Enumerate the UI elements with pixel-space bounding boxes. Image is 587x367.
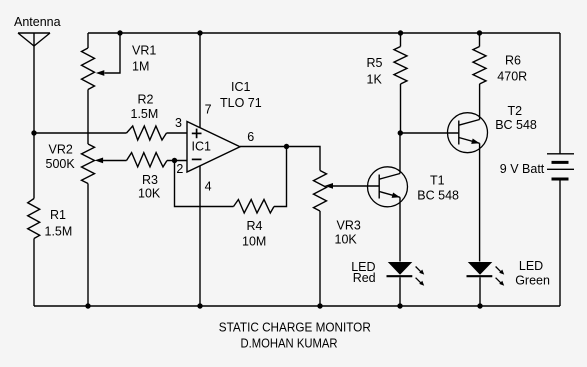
svg-text:1M: 1M: [132, 60, 149, 74]
node op-amp supply / top rail junction: [197, 30, 202, 35]
svg-text:Green: Green: [515, 274, 550, 288]
wire R5 top: [400, 33, 402, 47]
node LED green / bottom rail junction: [477, 303, 482, 308]
node op-amp V- / bottom rail junction: [197, 303, 202, 308]
wire inverting input (pin 2): [167, 160, 187, 162]
resistor R4: [234, 200, 275, 214]
svg-text:T2: T2: [508, 104, 523, 118]
svg-text:1.5M: 1.5M: [131, 107, 159, 121]
LED D2 green: [467, 262, 505, 306]
svg-text:1K: 1K: [367, 73, 383, 87]
wire VR2 to bottom rail: [87, 184, 89, 307]
svg-text:500K: 500K: [46, 157, 76, 171]
battery B1 9V: [547, 33, 574, 306]
resistor R3: [127, 153, 168, 167]
svg-text:Red: Red: [353, 271, 376, 285]
node T1 collector / R5 / T2 base junction: [398, 130, 403, 135]
wire op-amp V- (pin 4) to bottom rail: [199, 166, 201, 306]
LED D1 red: [387, 262, 425, 306]
resistor R5: [394, 47, 407, 85]
svg-text:10K: 10K: [138, 187, 161, 201]
svg-text:10M: 10M: [242, 234, 266, 248]
node R6 / top rail junction: [477, 30, 482, 35]
wire R6 top: [479, 33, 481, 47]
svg-text:T1: T1: [430, 173, 445, 187]
svg-text:9 V Batt: 9 V Batt: [500, 162, 545, 176]
svg-text:BC 548: BC 548: [495, 118, 537, 132]
node output / R4 junction: [284, 144, 289, 149]
wire T1 collector to T2 base: [400, 132, 459, 134]
svg-text:R1: R1: [50, 208, 66, 222]
svg-text:3: 3: [175, 116, 182, 130]
svg-text:IC1: IC1: [231, 80, 251, 94]
wire VR3 to bottom rail: [319, 211, 321, 306]
svg-text:TLO 71: TLO 71: [220, 96, 262, 110]
op-amp plus input sign: [192, 129, 202, 139]
op-amp IC1 triangle: [187, 122, 240, 173]
wire T2 collector to R6: [479, 84, 481, 120]
wire VR1 to VR2: [87, 90, 89, 145]
svg-text:R6: R6: [505, 54, 521, 68]
wire antenna to bottom rail: [33, 239, 35, 307]
transistor T1: [368, 167, 408, 207]
antenna: [18, 33, 50, 46]
svg-text:7: 7: [205, 103, 212, 117]
wire T2 emitter to LED green: [479, 143, 481, 261]
wire top supply rail: [88, 32, 560, 34]
wire R5 bottom to T1 collector node: [400, 84, 402, 133]
node antenna / pin3 wire junction: [31, 130, 36, 135]
wire R4 to output node: [274, 147, 287, 207]
wire T1 collector: [399, 133, 401, 174]
svg-text:R4: R4: [247, 219, 263, 233]
node LED red / bottom rail junction: [397, 303, 402, 308]
svg-text:IC1: IC1: [192, 140, 212, 154]
potentiometer VR2: [82, 144, 104, 184]
svg-text:6: 6: [247, 130, 254, 144]
resistor R6: [473, 47, 486, 85]
resistor R1: [28, 199, 40, 239]
wire op-amp V+ (pin 7) from top rail: [199, 33, 201, 128]
svg-text:LED: LED: [519, 259, 543, 273]
op-amp minus input sign: [192, 158, 202, 160]
wire T1 emitter to LED red: [399, 197, 401, 261]
node R5 / top rail junction: [398, 30, 403, 35]
node VR3 / bottom rail junction: [317, 303, 322, 308]
wire feedback from pin 2 down: [175, 161, 234, 207]
svg-text:1.5M: 1.5M: [45, 225, 73, 239]
svg-text:2: 2: [176, 162, 183, 176]
wire VR2 wiper to R3: [103, 160, 127, 162]
svg-text:BC 548: BC 548: [417, 188, 459, 202]
svg-text:R2: R2: [138, 93, 154, 107]
svg-text:D.MOHAN KUMAR: D.MOHAN KUMAR: [241, 337, 338, 351]
wire op-amp output (pin 6): [240, 147, 320, 171]
svg-text:STATIC CHARGE MONITOR: STATIC CHARGE MONITOR: [219, 320, 371, 334]
wire antenna vertical: [33, 33, 35, 199]
node VR1 wiper / top rail junction: [117, 30, 122, 35]
svg-text:VR1: VR1: [132, 44, 156, 58]
svg-text:R3: R3: [142, 173, 158, 187]
resistor R2: [127, 126, 167, 140]
svg-text:10K: 10K: [335, 233, 358, 247]
node VR2 / bottom rail junction: [85, 303, 90, 308]
potentiometer VR3: [314, 171, 334, 212]
svg-text:VR2: VR2: [49, 143, 73, 157]
node pin 2 / feedback junction: [172, 158, 177, 163]
svg-text:VR3: VR3: [337, 219, 361, 233]
transistor T2: [448, 113, 488, 153]
wire bottom ground rail: [34, 305, 560, 307]
wire VR3 wiper to T1 base: [333, 185, 380, 187]
wire non-inverting input (pin 3): [34, 132, 127, 134]
svg-text:4: 4: [205, 180, 212, 194]
svg-text:Antenna: Antenna: [14, 15, 61, 29]
svg-text:470R: 470R: [497, 70, 527, 84]
potentiometer VR1: [82, 33, 121, 90]
svg-text:R5: R5: [367, 56, 383, 70]
